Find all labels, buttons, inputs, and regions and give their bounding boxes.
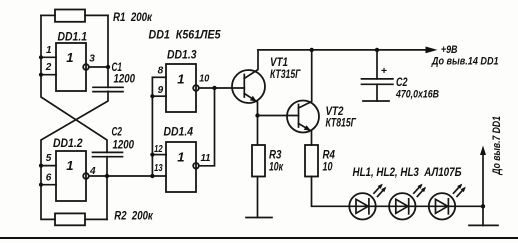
svg-text:1200: 1200: [113, 137, 135, 151]
svg-text:1: 1: [177, 71, 184, 86]
svg-text:11: 11: [201, 153, 211, 164]
svg-text:КТ315Г: КТ315Г: [270, 67, 301, 81]
svg-text:До выв.14 DD1: До выв.14 DD1: [431, 56, 499, 68]
svg-text:10: 10: [199, 74, 209, 85]
svg-text:8: 8: [158, 65, 164, 76]
svg-text:DD1.3: DD1.3: [167, 48, 197, 62]
svg-text:1: 1: [66, 158, 73, 173]
svg-text:+9В: +9В: [441, 44, 458, 56]
svg-text:1: 1: [46, 45, 52, 56]
svg-text:HL1, HL2, HL3 АЛ107Б: HL1, HL2, HL3 АЛ107Б: [353, 165, 462, 179]
svg-text:12: 12: [154, 144, 163, 155]
svg-text:2: 2: [45, 62, 52, 73]
svg-text:R2 200к: R2 200к: [114, 208, 153, 222]
svg-text:6: 6: [46, 172, 52, 183]
svg-text:DD1.4: DD1.4: [164, 125, 194, 139]
svg-text:+: +: [381, 65, 387, 77]
svg-text:C2: C2: [396, 75, 408, 89]
svg-text:КТ815Г: КТ815Г: [326, 116, 357, 130]
svg-text:DD1.1: DD1.1: [58, 29, 88, 43]
svg-text:1200: 1200: [114, 72, 136, 86]
svg-text:5: 5: [46, 153, 52, 164]
svg-text:4: 4: [89, 166, 96, 177]
svg-text:9: 9: [158, 85, 164, 96]
svg-text:1: 1: [177, 150, 184, 165]
svg-text:10к: 10к: [269, 160, 284, 174]
svg-text:13: 13: [154, 163, 163, 174]
svg-text:DD1 К561ЛЕ5: DD1 К561ЛЕ5: [149, 28, 221, 42]
svg-text:До выв.7 DD1: До выв.7 DD1: [491, 116, 503, 175]
svg-text:470,0х16В: 470,0х16В: [395, 89, 439, 101]
svg-text:R1 200к: R1 200к: [113, 10, 153, 24]
svg-text:3: 3: [89, 54, 95, 65]
svg-text:10: 10: [323, 160, 333, 174]
svg-text:1: 1: [66, 50, 73, 65]
svg-text:DD1.2: DD1.2: [53, 136, 83, 150]
